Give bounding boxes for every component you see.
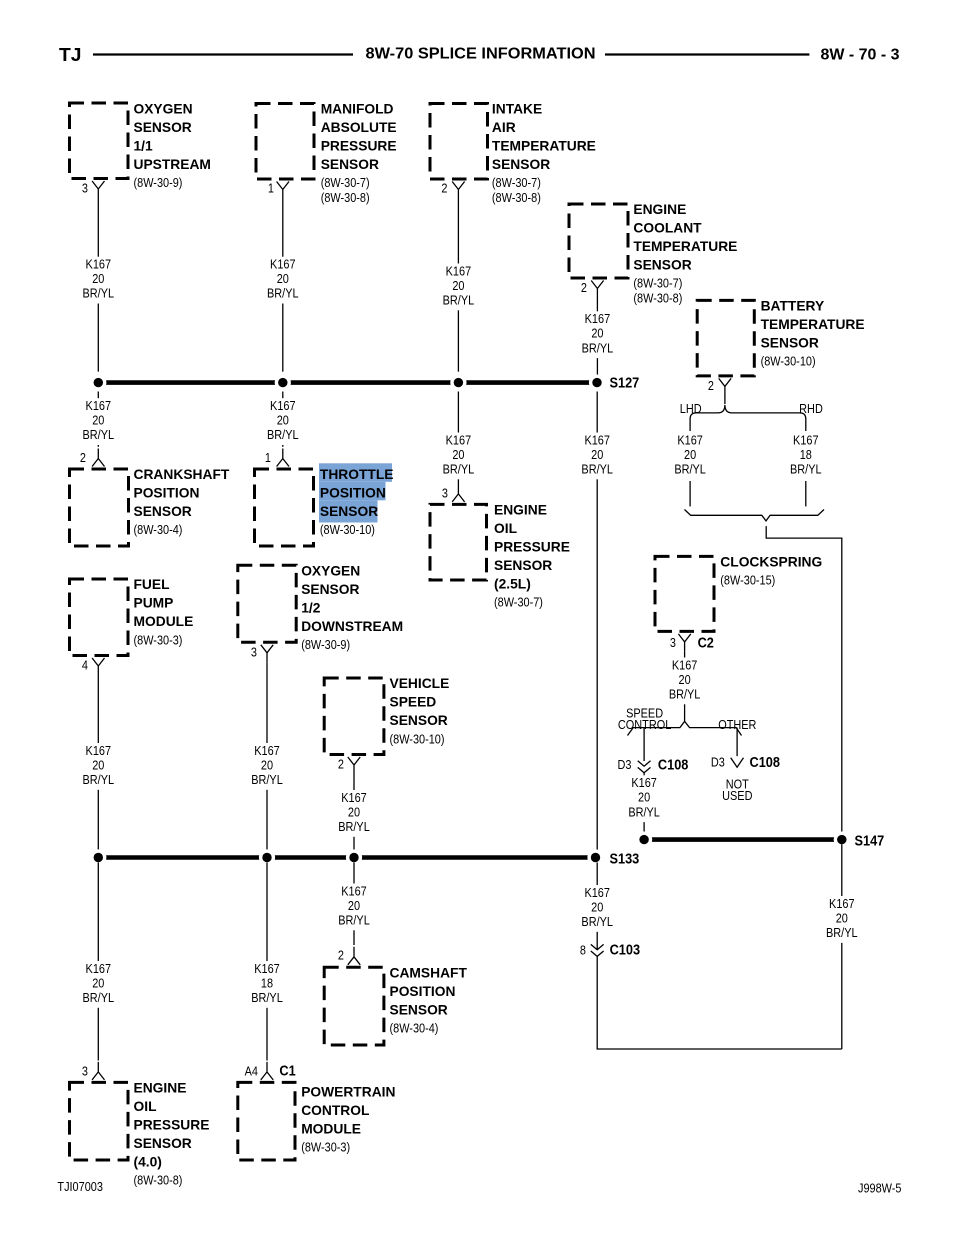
wire S133 to camshaft position sensor bbox=[353, 863, 355, 946]
svg-text:K167: K167 bbox=[341, 790, 367, 805]
svg-text:BR/YL: BR/YL bbox=[581, 914, 613, 929]
svg-text:SENSOR: SENSOR bbox=[134, 504, 192, 519]
svg-text:OIL: OIL bbox=[134, 1099, 157, 1114]
wire LHD to brace bbox=[689, 481, 691, 506]
connector half fuel pump module bbox=[92, 658, 104, 676]
svg-text:8: 8 bbox=[580, 943, 586, 958]
svg-text:20: 20 bbox=[92, 271, 104, 286]
svg-text:SENSOR: SENSOR bbox=[761, 336, 819, 351]
svg-text:BR/YL: BR/YL bbox=[669, 687, 701, 702]
svg-text:TEMPERATURE: TEMPERATURE bbox=[633, 239, 737, 254]
wire S127 to crankshaft position sensor bbox=[97, 392, 99, 447]
wire label K167 20 BR/YL VSS bbox=[337, 790, 371, 837]
svg-text:3: 3 bbox=[82, 181, 88, 196]
svg-text:POSITION: POSITION bbox=[320, 485, 386, 500]
svg-text:(8W-30-4): (8W-30-4) bbox=[390, 1021, 439, 1036]
svg-text:BR/YL: BR/YL bbox=[790, 462, 822, 477]
svg-text:8W-70 SPLICE INFORMATION: 8W-70 SPLICE INFORMATION bbox=[366, 45, 596, 62]
powertrain control module box bbox=[238, 1082, 295, 1160]
junction dot S127 col3 bbox=[450, 375, 466, 391]
svg-text:2: 2 bbox=[80, 450, 86, 465]
split speed control / other bbox=[628, 721, 742, 735]
svg-text:BR/YL: BR/YL bbox=[267, 427, 299, 442]
wire split to C108 other bbox=[736, 728, 738, 757]
throttle position sensor box bbox=[255, 469, 314, 546]
svg-text:SENSOR: SENSOR bbox=[390, 1002, 448, 1017]
svg-text:POWERTRAIN: POWERTRAIN bbox=[301, 1085, 395, 1100]
wire split LHD/RHD bbox=[690, 405, 806, 431]
svg-text:(8W-30-8): (8W-30-8) bbox=[633, 290, 682, 305]
svg-text:POSITION: POSITION bbox=[390, 984, 456, 999]
fuel pump module label bbox=[134, 577, 194, 647]
wire S133 to C103 bbox=[596, 863, 598, 950]
svg-text:(8W-30-9): (8W-30-9) bbox=[134, 175, 183, 190]
engine coolant temperature sensor label bbox=[633, 202, 737, 306]
crankshaft position sensor box bbox=[70, 469, 129, 546]
header rule left bbox=[93, 53, 353, 55]
connector half battery temperature sensor bbox=[719, 378, 731, 396]
svg-text:J998W-5: J998W-5 bbox=[858, 1181, 902, 1196]
svg-text:K167: K167 bbox=[584, 432, 610, 447]
svg-text:20: 20 bbox=[591, 447, 603, 462]
engine oil pressure sensor 2.5L label bbox=[494, 503, 570, 610]
svg-text:K167: K167 bbox=[672, 657, 698, 672]
svg-text:20: 20 bbox=[679, 672, 691, 687]
svg-text:ENGINE: ENGINE bbox=[633, 202, 686, 217]
svg-text:(2.5L): (2.5L) bbox=[494, 577, 531, 592]
svg-text:K167: K167 bbox=[86, 961, 112, 976]
svg-text:K167: K167 bbox=[446, 263, 472, 278]
svg-text:D3: D3 bbox=[617, 757, 631, 772]
wire S127 to throttle position sensor bbox=[282, 392, 284, 447]
svg-text:3: 3 bbox=[251, 644, 257, 659]
svg-text:TEMPERATURE: TEMPERATURE bbox=[761, 317, 865, 332]
svg-text:MANIFOLD: MANIFOLD bbox=[321, 101, 394, 116]
connector half MAP sensor bbox=[277, 182, 289, 200]
label SPEED CONTROL bbox=[618, 706, 672, 732]
label NOT USED bbox=[722, 777, 753, 804]
fuel pump module box bbox=[70, 579, 129, 656]
wire label K167 20 BR/YL col2 mid bbox=[266, 398, 300, 445]
oxygen sensor 1/1 upstream box bbox=[70, 103, 129, 179]
svg-text:(8W-30-7): (8W-30-7) bbox=[321, 175, 370, 190]
svg-text:(8W-30-7): (8W-30-7) bbox=[633, 276, 682, 291]
svg-text:20: 20 bbox=[92, 975, 104, 990]
svg-text:K167: K167 bbox=[86, 257, 112, 272]
svg-text:(4.0): (4.0) bbox=[134, 1154, 162, 1169]
svg-text:(8W-30-10): (8W-30-10) bbox=[320, 522, 375, 537]
wire S127 to engine oil pressure sensor 2.5L bbox=[457, 392, 459, 485]
svg-text:ABSOLUTE: ABSOLUTE bbox=[321, 120, 397, 135]
svg-text:SENSOR: SENSOR bbox=[301, 582, 359, 597]
svg-text:S147: S147 bbox=[855, 833, 885, 849]
header rule right bbox=[605, 53, 809, 55]
wire fuel pump to S133 bbox=[97, 676, 99, 853]
svg-text:(8W-30-9): (8W-30-9) bbox=[301, 637, 350, 652]
svg-text:3: 3 bbox=[442, 485, 448, 500]
svg-text:(8W-30-10): (8W-30-10) bbox=[761, 354, 816, 369]
junction dot S133 col3 bbox=[346, 849, 362, 865]
svg-text:K167: K167 bbox=[254, 743, 280, 758]
svg-text:(8W-30-15): (8W-30-15) bbox=[720, 572, 775, 587]
svg-text:20: 20 bbox=[591, 326, 603, 341]
connector half vehicle speed sensor bbox=[348, 757, 360, 775]
wire C103 to bottom corner bbox=[597, 956, 842, 1049]
wire label K167 20 BR/YL col3 lower bbox=[337, 883, 371, 930]
junction dot S133 col4 bbox=[587, 849, 603, 865]
wire label K167 20 BR/YL clockspring bbox=[668, 657, 702, 704]
svg-text:COOLANT: COOLANT bbox=[633, 220, 702, 235]
svg-text:DOWNSTREAM: DOWNSTREAM bbox=[301, 619, 403, 634]
svg-text:BR/YL: BR/YL bbox=[267, 286, 299, 301]
svg-text:D3: D3 bbox=[711, 755, 725, 770]
wire S127 to S133 col4 bbox=[596, 392, 598, 854]
battery temperature sensor box bbox=[697, 300, 754, 376]
svg-text:TJI07003: TJI07003 bbox=[57, 1179, 103, 1194]
svg-text:POSITION: POSITION bbox=[134, 485, 200, 500]
vehicle speed sensor box bbox=[324, 678, 384, 755]
splice bus S133 bbox=[98, 855, 596, 860]
wire split to C108 speed control bbox=[643, 728, 645, 761]
svg-text:C2: C2 bbox=[698, 635, 715, 651]
svg-text:20: 20 bbox=[348, 804, 360, 819]
svg-text:20: 20 bbox=[348, 898, 360, 913]
wire label K167 18 BR/YL RHD bbox=[789, 432, 823, 479]
crankshaft position sensor label bbox=[134, 467, 230, 537]
svg-text:A4: A4 bbox=[245, 1063, 259, 1078]
svg-text:SENSOR: SENSOR bbox=[320, 504, 378, 519]
svg-text:3: 3 bbox=[670, 635, 676, 650]
svg-text:2: 2 bbox=[581, 280, 587, 295]
wire label K167 20 BR/YL col4 mid bbox=[580, 432, 614, 479]
throttle position sensor label highlighted bbox=[319, 463, 393, 537]
svg-text:ENGINE: ENGINE bbox=[494, 503, 547, 518]
svg-text:20: 20 bbox=[277, 413, 289, 428]
svg-text:S133: S133 bbox=[610, 851, 640, 867]
engine oil pressure sensor 4.0 box bbox=[70, 1082, 129, 1160]
wire label K167 20 BR/YL fuel pump bbox=[81, 743, 115, 790]
wire label K167 20 BR/YL col2 upper bbox=[266, 257, 300, 304]
connector C108 other single chevron bbox=[731, 758, 744, 768]
svg-text:18: 18 bbox=[261, 975, 273, 990]
svg-text:PUMP: PUMP bbox=[134, 596, 174, 611]
svg-text:INTAKE: INTAKE bbox=[492, 101, 542, 116]
svg-text:K167: K167 bbox=[270, 257, 296, 272]
connector C1 half bbox=[261, 1062, 273, 1080]
svg-text:VEHICLE: VEHICLE bbox=[390, 676, 450, 691]
svg-text:SENSOR: SENSOR bbox=[494, 558, 552, 573]
wire RHD to brace bbox=[805, 481, 807, 506]
svg-text:BR/YL: BR/YL bbox=[674, 462, 706, 477]
svg-text:SENSOR: SENSOR bbox=[321, 157, 379, 172]
svg-text:FUEL: FUEL bbox=[134, 577, 170, 592]
clockspring label bbox=[720, 554, 822, 587]
svg-text:K167: K167 bbox=[829, 896, 855, 911]
wire label K167 20 BR/YL col4 lower bbox=[580, 885, 614, 932]
svg-text:20: 20 bbox=[591, 899, 603, 914]
connector half engine oil pressure sensor 4.0 bbox=[92, 1062, 104, 1080]
svg-text:CONTROL: CONTROL bbox=[301, 1103, 369, 1118]
connector half oxygen sensor 1/2 bbox=[261, 645, 273, 663]
svg-text:1: 1 bbox=[268, 181, 274, 196]
svg-text:LHD: LHD bbox=[680, 401, 702, 416]
wire S133 to engine oil pressure sensor 4.0 bbox=[97, 863, 99, 1061]
svg-text:BR/YL: BR/YL bbox=[83, 772, 115, 787]
svg-text:BR/YL: BR/YL bbox=[582, 340, 614, 355]
svg-text:K167: K167 bbox=[270, 398, 296, 413]
svg-text:BR/YL: BR/YL bbox=[83, 427, 115, 442]
svg-text:BR/YL: BR/YL bbox=[251, 990, 283, 1005]
wire label K167 20 BR/YL col3 mid bbox=[441, 432, 475, 479]
svg-text:BR/YL: BR/YL bbox=[251, 772, 283, 787]
intake air temperature sensor label bbox=[492, 101, 596, 205]
svg-text:THROTTLE: THROTTLE bbox=[320, 467, 394, 482]
svg-text:AIR: AIR bbox=[492, 120, 516, 135]
wire label K167 20 BR/YL below C108 bbox=[627, 775, 661, 822]
svg-text:MODULE: MODULE bbox=[134, 614, 194, 629]
vehicle speed sensor label bbox=[390, 676, 450, 746]
svg-text:TJ: TJ bbox=[59, 45, 82, 65]
wire label K167 20 BR/YL right riser bbox=[825, 896, 859, 943]
svg-text:BR/YL: BR/YL bbox=[83, 286, 115, 301]
connector half IAT sensor bbox=[452, 182, 464, 200]
svg-text:20: 20 bbox=[638, 790, 650, 805]
svg-text:2: 2 bbox=[338, 757, 344, 772]
svg-text:OXYGEN: OXYGEN bbox=[301, 563, 360, 578]
svg-text:BR/YL: BR/YL bbox=[581, 462, 613, 477]
svg-text:UPSTREAM: UPSTREAM bbox=[134, 157, 211, 172]
svg-text:2: 2 bbox=[338, 948, 344, 963]
junction dot S133 col2 bbox=[259, 849, 275, 865]
engine coolant temperature sensor box bbox=[569, 204, 628, 278]
connector half camshaft position sensor bbox=[348, 947, 360, 965]
svg-text:4: 4 bbox=[82, 658, 88, 673]
svg-text:3: 3 bbox=[82, 1063, 88, 1078]
junction dot S147 right bbox=[834, 832, 850, 848]
engine oil pressure sensor 2.5L box bbox=[430, 504, 487, 580]
connector C2 half bbox=[678, 634, 690, 652]
wire S133 to powertrain control module bbox=[266, 863, 268, 1061]
svg-text:(8W-30-8): (8W-30-8) bbox=[134, 1173, 183, 1188]
svg-text:S127: S127 bbox=[610, 375, 640, 391]
svg-text:BR/YL: BR/YL bbox=[443, 293, 475, 308]
svg-text:C108: C108 bbox=[658, 757, 689, 773]
svg-text:20: 20 bbox=[92, 757, 104, 772]
svg-text:OIL: OIL bbox=[494, 521, 517, 536]
svg-text:(8W-30-7): (8W-30-7) bbox=[492, 175, 541, 190]
connector half crankshaft position sensor bbox=[92, 449, 104, 467]
connector half throttle position sensor bbox=[277, 449, 289, 467]
junction dot S127 col1 bbox=[90, 375, 106, 391]
wire label K167 20 BR/YL LHD bbox=[673, 432, 707, 479]
svg-text:K167: K167 bbox=[86, 743, 112, 758]
splice bus S147 bbox=[644, 837, 842, 842]
svg-text:TEMPERATURE: TEMPERATURE bbox=[492, 138, 596, 153]
svg-text:2: 2 bbox=[441, 181, 447, 196]
svg-text:SENSOR: SENSOR bbox=[492, 157, 550, 172]
wire brace to S147 riser bbox=[766, 526, 842, 837]
wire S147 down right side bbox=[841, 844, 843, 1049]
camshaft position sensor label bbox=[390, 965, 468, 1035]
svg-text:BR/YL: BR/YL bbox=[826, 925, 858, 940]
svg-text:20: 20 bbox=[452, 447, 464, 462]
svg-text:SENSOR: SENSOR bbox=[134, 1136, 192, 1151]
svg-text:K167: K167 bbox=[86, 398, 112, 413]
oxygen sensor 1/1 upstream label bbox=[134, 101, 211, 190]
svg-text:OXYGEN: OXYGEN bbox=[134, 101, 193, 116]
svg-text:PRESSURE: PRESSURE bbox=[321, 138, 397, 153]
junction dot S127 col2 bbox=[275, 375, 291, 391]
svg-text:PRESSURE: PRESSURE bbox=[494, 540, 570, 555]
svg-text:BR/YL: BR/YL bbox=[628, 804, 660, 819]
connector C108 speed control double chevron bbox=[638, 761, 651, 773]
svg-text:K167: K167 bbox=[584, 885, 610, 900]
svg-text:SENSOR: SENSOR bbox=[633, 257, 691, 272]
svg-text:(8W-30-8): (8W-30-8) bbox=[321, 190, 370, 205]
battery temperature sensor label bbox=[761, 299, 865, 369]
connector half engine oil pressure sensor 2.5L bbox=[452, 484, 464, 502]
svg-text:BATTERY: BATTERY bbox=[761, 299, 825, 314]
svg-text:SPEED: SPEED bbox=[390, 695, 437, 710]
merge brace LHD/RHD bbox=[685, 510, 825, 521]
svg-text:K167: K167 bbox=[341, 883, 367, 898]
wire IAT to S127 bbox=[457, 200, 459, 372]
svg-text:2: 2 bbox=[708, 378, 714, 393]
wire C108 to S147 bbox=[643, 773, 645, 835]
wire label K167 20 BR/YL col3 upper bbox=[441, 263, 475, 310]
svg-text:20: 20 bbox=[261, 757, 273, 772]
connector half ECT sensor bbox=[591, 281, 603, 299]
svg-text:CLOCKSPRING: CLOCKSPRING bbox=[720, 554, 822, 569]
svg-text:K167: K167 bbox=[446, 432, 472, 447]
svg-text:(8W-30-8): (8W-30-8) bbox=[492, 190, 541, 205]
svg-text:SENSOR: SENSOR bbox=[390, 713, 448, 728]
svg-text:CAMSHAFT: CAMSHAFT bbox=[390, 965, 468, 980]
svg-text:BR/YL: BR/YL bbox=[83, 990, 115, 1005]
svg-text:(8W-30-7): (8W-30-7) bbox=[494, 595, 543, 610]
svg-text:20: 20 bbox=[277, 271, 289, 286]
wire label K167 18 BR/YL col2 lower bbox=[250, 961, 284, 1008]
svg-text:(8W-30-10): (8W-30-10) bbox=[390, 731, 445, 746]
wire label K167 20 BR/YL col1 lower bbox=[81, 961, 115, 1008]
wire label K167 20 BR/YL col4 upper bbox=[580, 311, 614, 358]
oxygen sensor 1/2 downstream box bbox=[238, 565, 296, 642]
svg-text:20: 20 bbox=[836, 910, 848, 925]
svg-text:BR/YL: BR/YL bbox=[338, 913, 370, 928]
wire label K167 20 BR/YL col1 upper bbox=[81, 257, 115, 304]
svg-text:(8W-30-3): (8W-30-3) bbox=[301, 1140, 350, 1155]
svg-text:K167: K167 bbox=[631, 775, 657, 790]
oxygen sensor 1/2 downstream label bbox=[301, 563, 403, 652]
svg-text:C108: C108 bbox=[750, 754, 781, 770]
svg-text:1/1: 1/1 bbox=[134, 138, 154, 153]
wire oxygen 1/1 to S127 bbox=[97, 199, 99, 372]
svg-text:RHD: RHD bbox=[799, 401, 823, 416]
svg-text:ENGINE: ENGINE bbox=[134, 1080, 187, 1095]
svg-text:1: 1 bbox=[265, 450, 271, 465]
svg-text:18: 18 bbox=[800, 447, 812, 462]
svg-text:8W - 70 - 3: 8W - 70 - 3 bbox=[821, 47, 900, 64]
svg-text:20: 20 bbox=[452, 278, 464, 293]
junction dot S133 col1 bbox=[90, 849, 106, 865]
connector C103 double chevron bbox=[591, 944, 604, 956]
manifold absolute pressure sensor box bbox=[256, 104, 314, 180]
svg-text:(8W-30-4): (8W-30-4) bbox=[134, 522, 183, 537]
svg-text:USED: USED bbox=[722, 788, 753, 803]
svg-text:(8W-30-3): (8W-30-3) bbox=[134, 632, 183, 647]
intake air temperature sensor box bbox=[430, 104, 488, 180]
manifold absolute pressure sensor label bbox=[321, 101, 397, 205]
svg-text:MODULE: MODULE bbox=[301, 1122, 361, 1137]
wire ECT to S127 bbox=[596, 299, 598, 378]
wire label K167 20 BR/YL oxygen 1/2 bbox=[250, 743, 284, 790]
svg-text:K167: K167 bbox=[585, 311, 611, 326]
clockspring box bbox=[655, 556, 714, 631]
wire MAP to S127 bbox=[282, 200, 284, 372]
svg-text:BR/YL: BR/YL bbox=[443, 462, 475, 477]
svg-text:PRESSURE: PRESSURE bbox=[134, 1117, 210, 1132]
engine oil pressure sensor 4.0 label bbox=[134, 1080, 210, 1187]
wire battery temp sensor to split bbox=[724, 396, 726, 404]
wire label K167 20 BR/YL col1 mid bbox=[81, 398, 115, 445]
svg-text:K167: K167 bbox=[254, 961, 280, 976]
splice bus S127 bbox=[98, 380, 597, 385]
svg-text:SENSOR: SENSOR bbox=[134, 120, 192, 135]
camshaft position sensor box bbox=[324, 967, 384, 1045]
svg-text:20: 20 bbox=[684, 447, 696, 462]
svg-text:C1: C1 bbox=[279, 1063, 296, 1079]
wire oxygen 1/2 to S133 bbox=[266, 663, 268, 853]
wire VSS to S133 bbox=[353, 775, 355, 853]
svg-text:1/2: 1/2 bbox=[301, 600, 321, 615]
svg-text:K167: K167 bbox=[793, 432, 819, 447]
wire clockspring to split bbox=[684, 652, 686, 721]
svg-text:20: 20 bbox=[92, 413, 104, 428]
junction dot S127 col4 bbox=[589, 375, 605, 391]
svg-text:C103: C103 bbox=[610, 942, 641, 958]
junction dot S147 left bbox=[636, 832, 652, 848]
connector half oxygen sensor 1/1 bbox=[92, 181, 104, 199]
svg-text:K167: K167 bbox=[677, 432, 703, 447]
powertrain control module label bbox=[301, 1085, 395, 1155]
svg-text:BR/YL: BR/YL bbox=[338, 819, 370, 834]
svg-text:CRANKSHAFT: CRANKSHAFT bbox=[134, 467, 230, 482]
